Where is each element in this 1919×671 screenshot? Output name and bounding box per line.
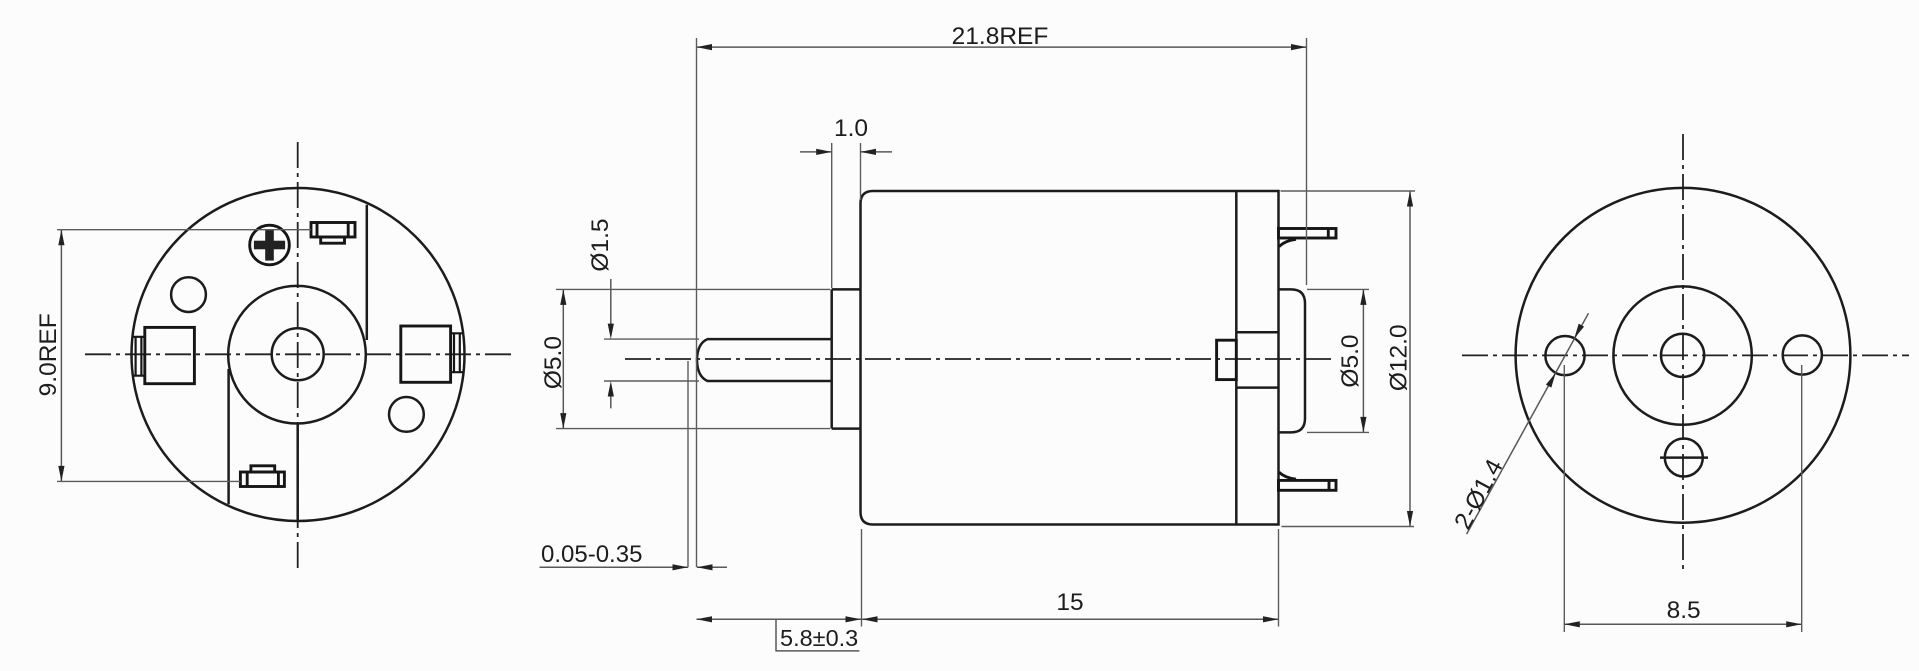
dim D5.0 right arrow bottom [1360,417,1366,433]
svg-text:Ø5.0: Ø5.0 [1337,334,1364,387]
terminal top [1279,229,1337,247]
dim D5.0 right arrow top [1360,289,1366,305]
leader 2-D1.4 arrow upper-right [1574,324,1584,339]
label 5.8 underline and leader bar [775,619,859,651]
dim 5.8 arrow right [846,616,862,622]
bottom hole chord line [1660,456,1708,459]
svg-text:Ø5.0: Ø5.0 [540,336,567,389]
screw head circle [250,225,290,265]
motor body outline [861,191,1279,525]
svg-text:8.5: 8.5 [1667,597,1701,624]
inner hub circle [228,286,366,424]
svg-text:5.8±0.3: 5.8±0.3 [780,625,858,651]
end cap bearing lines [1236,332,1278,387]
dim D12.0 arrow bottom [1407,511,1413,527]
vent hole top-left [171,277,206,312]
dim D5.0 right line [1362,289,1364,432]
svg-text:21.8REF: 21.8REF [952,23,1049,50]
leader line 2-D1.4 [1467,313,1589,534]
top brush tab [311,223,355,244]
horizontal centerline [85,353,512,355]
center shaft hole [1661,334,1704,377]
arrow down [58,466,64,482]
vent hole bottom-right [389,397,424,432]
dim D12.0 arrow top [1407,191,1413,207]
front bearing boss [832,289,861,428]
bottom hole [1665,439,1703,477]
shaft [697,339,832,381]
right chord line [366,205,369,340]
dim 21.8REF arrow left [697,44,713,50]
dim D5.0 left arrow bottom [560,413,566,429]
dim 1.0 line + outside arrows [800,151,892,153]
dim 1.0 arrow right [861,149,877,155]
dim 21.8REF extension lines [697,38,1307,567]
leader 2-D1.4 arrow lower-left [1546,373,1556,388]
dim 8.5 arrow left [1564,621,1580,627]
dim D5.0 left arrow top [560,289,566,305]
dim 8.5 line [1564,623,1801,625]
dim 15 arrow right [1263,616,1279,622]
rear bearing block [1217,340,1237,379]
dim 1.0 extension lines [832,143,861,288]
dim 5.8 arrow left [697,616,713,622]
bottom center seam line [296,424,299,521]
dim D1.5 line + outside arrows [610,279,612,408]
vertical centerline [1682,134,1684,574]
end cap joint line [1235,191,1238,525]
arrow up [58,230,64,246]
dim 8.5 extension lines [1564,365,1801,632]
dim 15/5.8 extension lines [862,529,1279,627]
svg-text:2-Ø1.4: 2-Ø1.4 [1450,455,1509,534]
center shaft hole [272,328,324,380]
dimension 9.0REF line [60,230,62,482]
mounting hole right [1783,335,1822,374]
svg-text:Ø1.5: Ø1.5 [587,218,614,271]
vertical centerline [297,142,299,568]
dim D12.0 extension lines [1281,191,1416,527]
svg-text:15: 15 [1056,589,1083,616]
svg-text:1.0: 1.0 [834,115,868,142]
bottom brush tab [240,466,284,487]
dimension 9.0REF extension lines [57,230,311,482]
main centerline [625,358,1334,360]
dim 8.5 arrow right [1786,621,1802,627]
dim D1.5 arrow down [608,324,614,340]
right side tab [401,326,463,382]
dim 5.8 line [697,618,1279,620]
left chord line [227,369,230,504]
svg-text:9.0REF: 9.0REF [35,313,62,396]
dim D1.5 arrow up [608,381,614,397]
middle boss circle [1613,286,1751,424]
dim 0.05-0.35 arrow right-pointing [673,564,689,570]
dim 1.0 arrow left [816,149,832,155]
dim 21.8REF arrow right [1291,44,1307,50]
dim D12.0 line [1409,191,1411,527]
dim 21.8REF line [697,46,1307,48]
screw cross horizontal bar [254,241,285,250]
svg-text:0.05-0.35: 0.05-0.35 [541,541,642,568]
svg-text:Ø12.0: Ø12.0 [1386,324,1413,391]
dim D5.0 left extension lines [556,289,830,428]
dim D1.5 extension lines [604,339,699,381]
mounting hole left [1545,336,1584,375]
rear bulge [1279,289,1306,432]
dim 15 arrow left [862,616,878,622]
outer housing circle [132,188,465,521]
screw cross vertical bar [265,229,274,260]
dim 0.05-0.35 arrow left-pointing [697,564,713,570]
terminal bottom [1279,472,1337,490]
outer circle [1516,188,1851,523]
dim D5.0 left line [562,289,564,428]
dim D5.0 right extension lines [1307,289,1369,432]
horizontal centerline [1462,354,1909,356]
left side tab [133,327,195,383]
dim 0.05-0.35 leader [687,361,689,567]
